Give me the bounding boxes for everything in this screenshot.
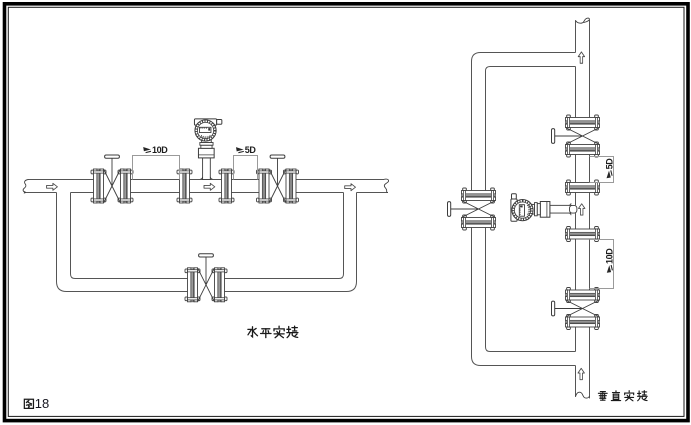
flow arrow inlet <box>47 183 58 190</box>
pipe break left end <box>23 180 28 194</box>
bypass loop outer line <box>57 193 357 292</box>
dimension bracket 10D <box>133 156 180 180</box>
dimension bracket 5D vertical <box>590 157 614 183</box>
valve V1 inlet <box>91 155 133 203</box>
valve V3 bypass <box>185 254 227 302</box>
label shui ping an zhuang (horizontal installation) <box>248 326 298 338</box>
main pipe left line <box>575 20 577 397</box>
dimension bracket 10D vertical <box>590 240 614 289</box>
char zhuang <box>287 326 298 337</box>
flow arrow outlet <box>345 184 356 191</box>
pipe break top end <box>576 18 590 23</box>
label >=10D <box>143 145 168 155</box>
main pipe top line <box>28 179 384 181</box>
label >=5D <box>236 145 256 155</box>
pipe break bottom end <box>576 392 590 398</box>
valve V5 bottom <box>552 288 600 330</box>
char an <box>274 326 284 338</box>
bypass loop outer line <box>472 53 576 366</box>
label >=10D rotated <box>605 248 615 273</box>
flowmeter left flange <box>177 169 192 203</box>
main pipe right line <box>589 20 591 399</box>
label chui zhi an zhuang (vertical installation) <box>598 391 647 401</box>
valve V6 bypass <box>448 188 496 230</box>
char ping <box>261 329 271 338</box>
flowmeter bottom flange <box>566 227 600 242</box>
valve V4 top <box>552 115 600 157</box>
dimension bracket 5D <box>234 156 258 180</box>
svg-text:18: 18 <box>35 396 49 411</box>
char shui <box>248 327 258 337</box>
bypass loop inner line <box>71 193 344 279</box>
bypass loop inner line <box>486 67 576 352</box>
flowmeter top flange <box>566 180 600 195</box>
char chui <box>598 392 607 401</box>
flowmeter transmitter <box>194 119 221 180</box>
label >=5D rotated <box>604 158 614 178</box>
valve V2 outlet <box>257 155 299 203</box>
transmitter stem cap <box>570 205 577 213</box>
flowmeter transmitter <box>511 194 572 221</box>
label tu (figure) 18 <box>24 399 33 408</box>
main pipe bottom line <box>24 192 388 194</box>
char zhuang <box>638 391 648 401</box>
flow arrow at meter <box>204 183 215 190</box>
up arrow top <box>578 52 584 63</box>
flowmeter right flange <box>219 169 234 203</box>
char an <box>625 391 634 401</box>
up arrow at meter <box>578 204 584 215</box>
up arrow bottom <box>578 368 584 379</box>
char zhi <box>611 391 620 401</box>
pipe break right end <box>384 179 389 193</box>
